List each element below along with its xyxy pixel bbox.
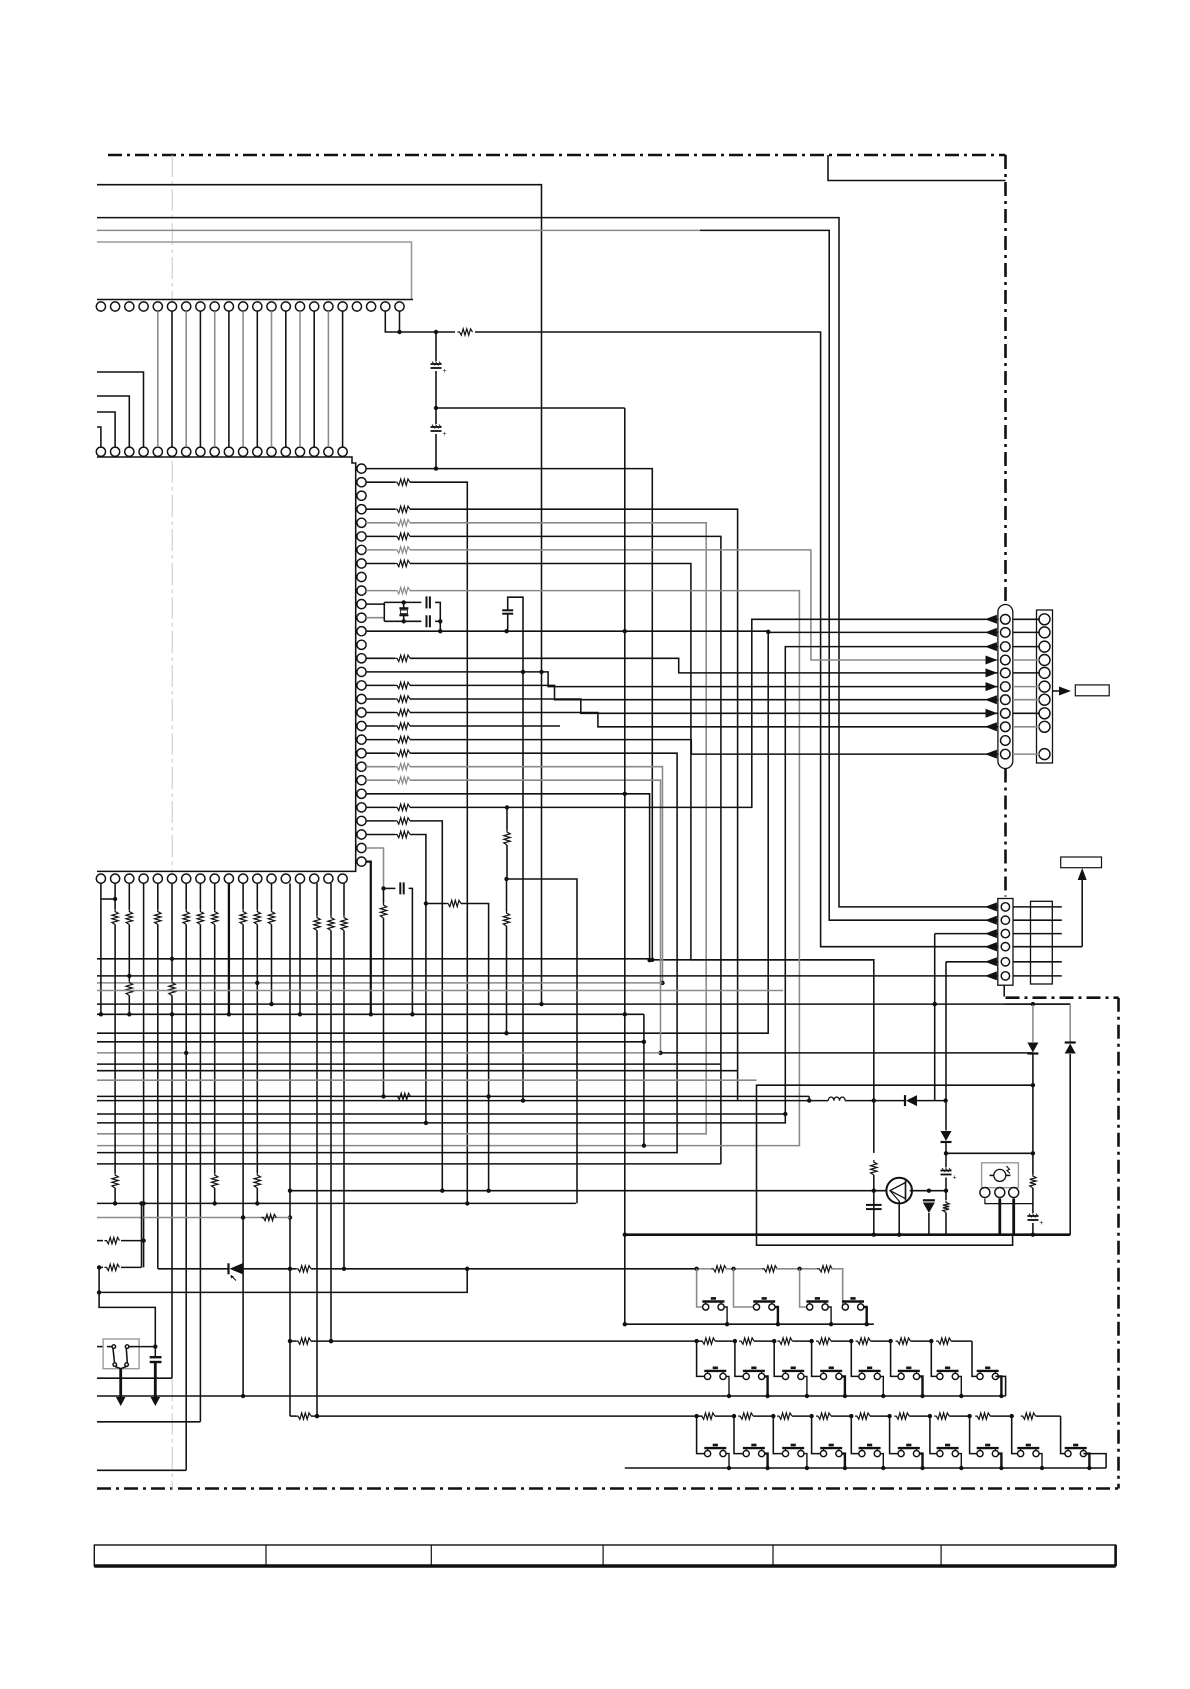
junction [424,901,428,905]
pin [995,1188,1005,1198]
wire [971,1341,973,1369]
wire [366,469,652,960]
wire bus [97,1063,721,1065]
junction [521,670,525,674]
resistor [395,587,410,593]
wire rowB line [290,1340,296,1342]
junction [434,406,438,410]
junction [765,1466,769,1470]
wire [506,926,508,1033]
pin [357,491,366,500]
wire [114,925,116,1015]
wire bus [97,990,783,992]
switch [703,1304,709,1310]
arrow [985,628,997,637]
wire [873,1152,875,1154]
pin [395,302,404,311]
pin [267,302,276,311]
pin [357,559,366,568]
page border right upper (dash-dot) [1004,155,1007,605]
resistor [1030,1174,1036,1188]
pin [1001,695,1011,705]
wire [313,311,315,447]
switch [820,1451,826,1457]
wire [366,712,395,714]
pin [210,874,219,883]
wire [399,311,401,332]
svg-text:+: + [1039,1220,1043,1227]
wire rowB bus [97,1395,1006,1397]
pin [153,447,162,456]
resistor [934,1413,949,1419]
pin [139,302,148,311]
wire [1013,618,1040,620]
junction [694,1267,698,1271]
junction [927,1189,931,1193]
wire [426,903,446,905]
junction [849,1414,853,1418]
wire [410,685,998,699]
wire [697,1416,705,1454]
wire [366,848,383,888]
wire [256,311,258,447]
switch [807,1304,813,1310]
resistor [395,533,410,540]
pin [1001,916,1009,924]
wire [951,1340,972,1342]
label box [1075,685,1109,696]
wire [804,1376,807,1396]
wire [171,996,173,1379]
wire rowA line gray [697,1268,713,1270]
junction [776,1322,780,1326]
wire [366,590,395,592]
wire [946,1152,1033,1154]
pin [1039,667,1050,678]
wire [366,766,395,768]
pin [357,694,366,703]
capacitor [150,1356,162,1358]
IC U1 [97,457,356,871]
wire [97,1469,186,1471]
switch [782,1373,788,1379]
pin [357,803,366,812]
junction [434,330,438,334]
pin [367,302,376,311]
wire [256,883,258,909]
arrow [986,709,998,718]
arrow [985,971,997,980]
wire [383,602,385,621]
junction [766,630,770,634]
junction [933,1002,937,1006]
pin [310,302,319,311]
junction [486,1094,490,1098]
resistor [395,506,410,512]
wire [891,1341,898,1376]
junction [241,1394,245,1398]
capacitor [941,1170,952,1172]
wire [697,1269,703,1307]
pin [1039,681,1050,692]
wire [114,1188,116,1203]
pin [1001,668,1011,678]
junction [888,1339,892,1343]
wire [366,563,395,565]
pin [1001,709,1011,719]
junction [797,1267,801,1271]
pin [357,789,366,798]
shield box (gray) [97,242,412,300]
wire [1004,1003,1070,1005]
wire [97,396,129,447]
wire [171,311,173,447]
wire [299,311,301,447]
wire [435,332,437,361]
wire [999,1454,1002,1468]
pin [196,447,205,456]
diode [906,1095,917,1106]
pin [281,302,290,311]
junction [829,1322,833,1326]
junction [97,1265,101,1269]
wire [1013,933,1062,935]
wire [917,1100,946,1102]
switch [705,1451,711,1457]
junction [650,958,654,962]
wire [435,620,440,622]
wire [410,509,738,1100]
wire [366,752,395,754]
wire [890,1416,898,1454]
resistor [446,900,461,906]
wire [330,931,332,1342]
wire [214,925,216,1174]
wire [97,1346,103,1348]
wire [1083,1454,1106,1468]
resistor [395,818,410,824]
junction [967,1414,971,1418]
capacitor [1027,1215,1038,1217]
junction [153,1344,157,1348]
resistor [395,547,410,553]
resistor [395,764,410,770]
pin [357,518,366,527]
pin [224,302,233,311]
wire [256,1188,258,1203]
wire [271,883,273,909]
pin [357,830,366,839]
switch [743,1373,749,1379]
junction [184,1051,188,1055]
pin [310,874,319,883]
wire [366,862,371,1015]
wire [1012,1199,1015,1235]
junction [505,805,509,809]
wire [934,934,936,1101]
junction [944,1151,948,1155]
pin [381,302,390,311]
wire [185,311,187,447]
wire [661,1052,1033,1054]
wire [715,1340,735,1342]
wire [725,1268,763,1270]
resistor [155,910,161,925]
resistor [816,1413,831,1419]
pin [182,447,191,456]
wire [776,1268,819,1270]
pin [357,708,366,717]
connector CN2 body [998,899,1013,986]
wire bus inductor line [97,1100,828,1102]
wire [410,482,467,1203]
switch [937,1373,943,1379]
pin [357,735,366,744]
wire rowC bus [625,1467,1106,1469]
wire left stub r1 [97,1240,103,1242]
pin [357,843,366,852]
label box [1061,857,1102,868]
resistor [254,1173,260,1188]
junction [1031,1233,1035,1237]
pin [1001,655,1011,665]
wire [228,883,230,1014]
wire bus transistor base line [290,1190,889,1192]
pin [357,776,366,785]
wire [366,684,395,686]
resistor [975,1413,990,1419]
pin [357,505,366,514]
wire [128,925,130,981]
wire bus gray [97,1217,290,1219]
wire [898,1201,900,1235]
wire [97,372,144,447]
wire bus pill row3 net [97,647,998,1123]
wire loop [757,1085,1033,1245]
resistor [856,1338,871,1344]
junction [434,466,438,470]
resistor [871,1160,877,1175]
wire [1032,1004,1034,1042]
junction [170,1012,174,1016]
wire [343,931,345,1269]
junction [99,1012,103,1016]
pin [253,447,262,456]
resistor [395,709,410,715]
wire [410,725,560,727]
pin [357,478,366,487]
wire [97,1421,200,1423]
wire [812,1341,821,1376]
wire [199,311,201,447]
junction [288,1339,292,1343]
wire [841,1269,844,1307]
title block notch [828,155,1006,181]
resistor [943,1201,949,1213]
wire [945,1142,947,1168]
junction [623,1322,627,1326]
wire [765,1376,768,1396]
wire [754,1340,774,1342]
page border top (dash-dot) [108,154,1006,157]
wire [366,631,998,632]
wire [995,1376,1005,1396]
wire [299,883,301,1014]
connector CN1b body [1037,610,1053,763]
junction [872,1189,876,1193]
wire x624.8 column [624,408,626,1235]
junction [809,1414,813,1418]
arrow [985,722,997,731]
junction [881,1394,885,1398]
pin [357,749,366,758]
capacitor [866,1204,882,1206]
wire [765,1454,768,1468]
pin [357,600,366,609]
wire [999,1376,1002,1396]
wire [1036,1415,1061,1417]
wire [1013,659,1040,661]
pin [182,874,191,883]
wire L3 [700,230,998,920]
table [94,1545,1115,1566]
wire [1013,699,1040,701]
wire [958,1454,961,1468]
wire CN2 label arrow [1081,874,1083,947]
wire [289,1191,291,1416]
wire [383,918,385,1096]
wire bus [97,1095,809,1097]
pin [125,447,134,456]
pin [324,302,333,311]
wire [311,1415,702,1417]
pin [253,874,262,883]
resistor [212,910,218,925]
wire [1061,1447,1065,1454]
wire [383,888,385,903]
resistor [395,777,410,784]
junction [381,886,385,890]
junction [342,1267,346,1271]
pin [1039,721,1050,732]
junction [227,1012,231,1016]
wire label arrow [1053,690,1065,692]
transistor Q1 [886,1178,912,1204]
wire [812,1416,821,1454]
pin [357,681,366,690]
pin [1039,708,1050,719]
wire [1039,1454,1042,1468]
pin [324,874,333,883]
arrow [985,957,997,966]
wire [199,883,201,909]
pin [295,874,304,883]
wire [285,311,287,447]
pin [239,874,248,883]
junction [647,958,651,962]
wire [998,1199,1001,1235]
wire [920,1376,923,1396]
wire [342,311,344,447]
resistor [777,1413,792,1419]
wire [271,311,273,447]
wire [157,311,159,447]
wire [1013,631,1040,633]
resistor [1021,1413,1036,1419]
junction [843,1466,847,1470]
pin [1001,628,1011,638]
arrow [985,942,997,951]
junction [944,1189,948,1193]
wire [400,331,437,333]
wire rowA line [158,1268,229,1270]
pin [239,447,248,456]
pin [338,874,347,883]
junction [141,1238,145,1242]
resistor [328,916,334,931]
pin [253,302,262,311]
wire [366,603,384,605]
wire [366,657,395,659]
junction [521,1098,525,1102]
junction [733,1339,737,1343]
wire [715,1415,734,1417]
pin [281,447,290,456]
resistor [212,1173,218,1188]
junction [315,1414,319,1418]
pin [1001,943,1009,951]
pin [153,302,162,311]
wire [185,883,187,909]
junction [809,1339,813,1343]
junction [410,1012,414,1016]
switch [859,1451,865,1457]
wire k17 [343,883,345,915]
pin [1001,903,1009,911]
pin [357,762,366,771]
wire [366,739,395,741]
wire [436,407,625,409]
wire [366,508,395,510]
wire [410,767,663,983]
wire [831,1269,843,1297]
wire [1060,1416,1062,1447]
pin [210,302,219,311]
pin [167,874,176,883]
pin [357,464,366,473]
resistor [896,1338,911,1344]
junction [438,629,442,633]
pin [224,447,233,456]
junction [999,1466,1003,1470]
resistor [762,1266,777,1272]
junction [402,619,406,623]
page border jog below connector [1003,985,1005,996]
wire [97,591,799,1146]
junction [943,1098,947,1102]
wire [214,311,216,447]
wire [828,1307,831,1324]
wire [243,1268,296,1270]
opto symbol [994,1169,1006,1181]
pin [125,874,134,883]
page border bottom (dash-dot) [97,1487,1119,1490]
pin [310,447,319,456]
junction [141,1201,145,1205]
pin [357,627,366,636]
junction [241,1215,245,1219]
pin [96,302,105,311]
